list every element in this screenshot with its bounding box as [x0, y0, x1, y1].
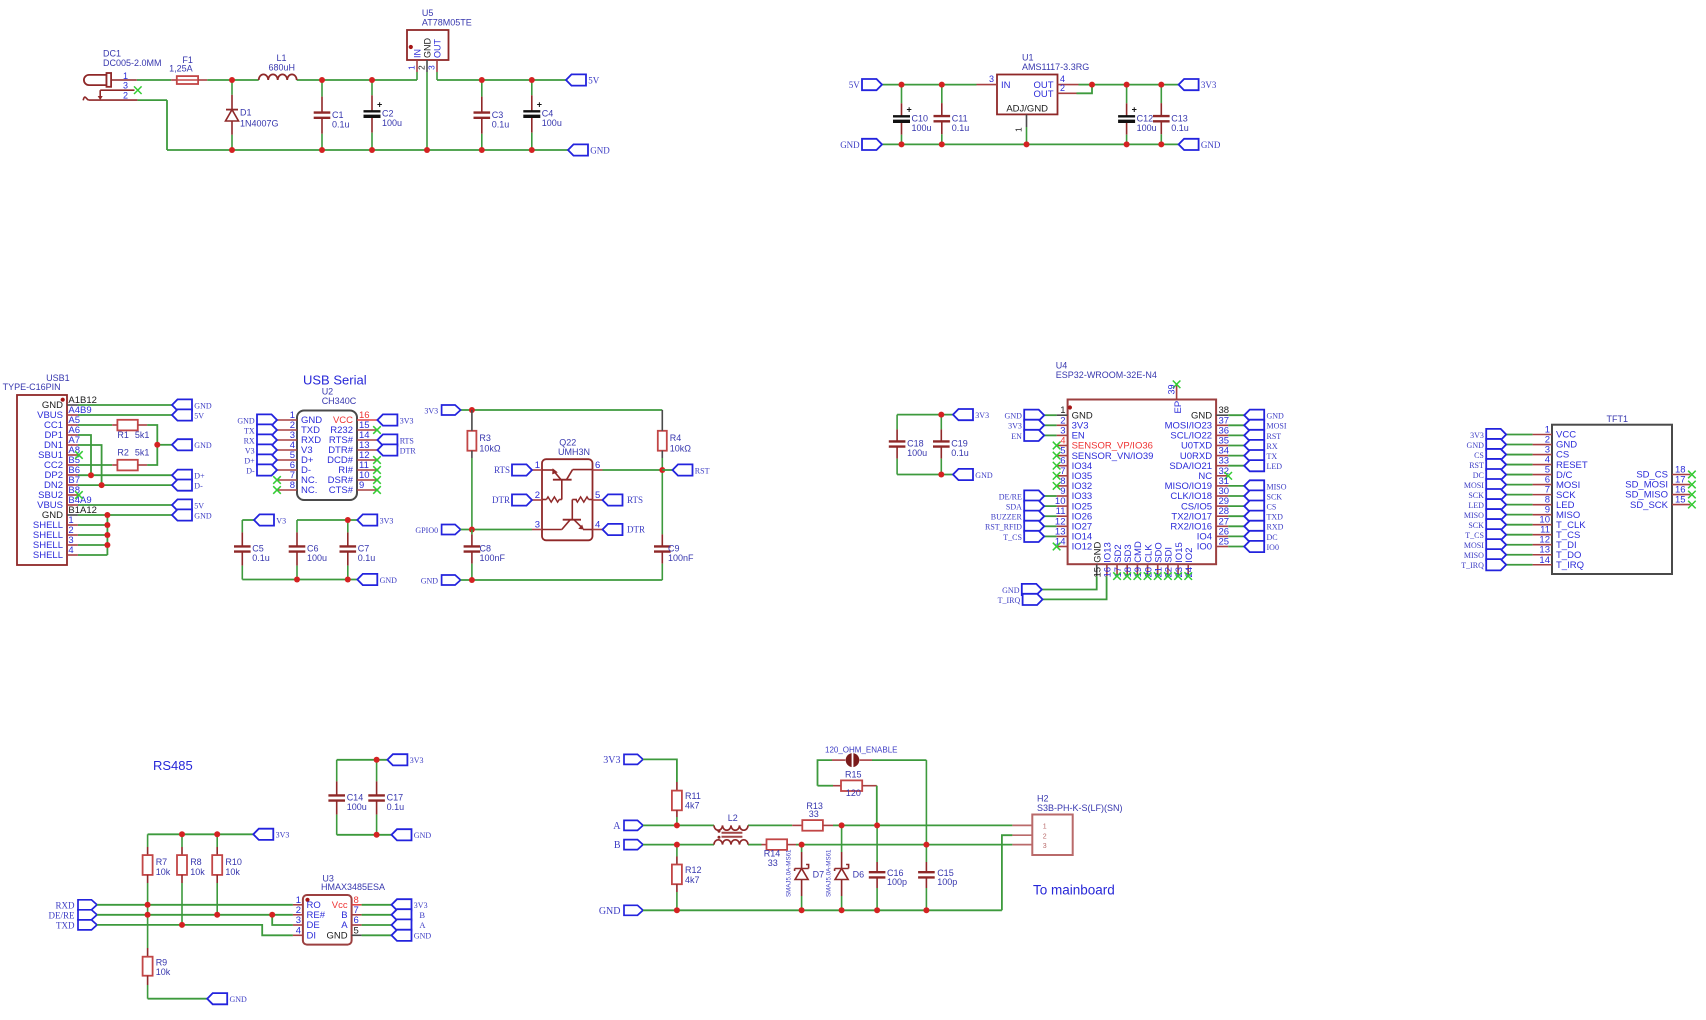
svg-text:3: 3	[426, 65, 436, 70]
svg-text:14: 14	[1539, 555, 1550, 566]
svg-text:HMAX3485ESA: HMAX3485ESA	[321, 882, 385, 892]
svg-text:TFT1: TFT1	[1607, 414, 1629, 424]
svg-text:10k: 10k	[225, 867, 240, 877]
svg-text:C12: C12	[1137, 114, 1154, 124]
svg-text:ESP32-WROOM-32E-N4: ESP32-WROOM-32E-N4	[1056, 370, 1157, 380]
svg-text:DC: DC	[1473, 471, 1484, 480]
svg-text:C3: C3	[492, 110, 504, 120]
svg-text:R14: R14	[764, 848, 781, 858]
svg-text:T_IRQ: T_IRQ	[998, 596, 1021, 605]
svg-text:2: 2	[1060, 83, 1065, 93]
svg-text:R4: R4	[670, 433, 682, 443]
svg-text:4: 4	[296, 925, 301, 936]
svg-text:DTR: DTR	[400, 446, 417, 455]
svg-text:CS: CS	[1267, 503, 1277, 512]
svg-text:2: 2	[1043, 834, 1047, 841]
svg-text:1: 1	[406, 65, 416, 70]
svg-text:10k: 10k	[156, 867, 171, 877]
svg-text:C7: C7	[358, 544, 370, 554]
svg-text:RST: RST	[1267, 432, 1282, 441]
svg-text:GND: GND	[414, 932, 432, 941]
svg-text:3V3: 3V3	[400, 416, 414, 425]
svg-text:C10: C10	[912, 114, 929, 124]
svg-text:C17: C17	[387, 793, 404, 803]
svg-text:RST: RST	[1469, 461, 1484, 470]
svg-text:CTS#: CTS#	[329, 485, 354, 496]
svg-text:EN: EN	[1011, 432, 1022, 441]
svg-text:GND: GND	[237, 416, 255, 425]
svg-text:GND: GND	[975, 471, 993, 480]
svg-text:GND: GND	[590, 145, 610, 155]
svg-text:DTR: DTR	[492, 495, 510, 505]
svg-text:3V3: 3V3	[424, 407, 438, 416]
svg-text:10k: 10k	[156, 967, 171, 977]
svg-text:TXD: TXD	[56, 921, 75, 931]
svg-text:GND: GND	[1467, 441, 1485, 450]
svg-text:TX: TX	[1267, 452, 1278, 461]
svg-text:GND: GND	[194, 401, 212, 410]
svg-text:100p: 100p	[937, 877, 957, 887]
svg-text:0.1u: 0.1u	[492, 119, 510, 129]
svg-text:SHELL: SHELL	[33, 550, 63, 561]
svg-text:BUZZER: BUZZER	[991, 513, 1023, 522]
svg-text:D+: D+	[194, 472, 205, 481]
svg-text:C9: C9	[668, 544, 680, 554]
svg-text:10k: 10k	[190, 867, 205, 877]
svg-text:3V3: 3V3	[380, 516, 394, 525]
svg-text:C14: C14	[347, 793, 364, 803]
svg-text:C6: C6	[307, 544, 319, 554]
svg-text:IO2: IO2	[1184, 547, 1195, 562]
svg-text:0.1u: 0.1u	[952, 123, 970, 133]
svg-text:1: 1	[535, 460, 540, 471]
svg-text:GND: GND	[1267, 412, 1285, 421]
svg-text:25: 25	[1219, 537, 1230, 548]
svg-text:39: 39	[1167, 384, 1177, 394]
svg-text:3V3: 3V3	[1008, 422, 1022, 431]
svg-text:R2: R2	[117, 447, 129, 457]
svg-text:0.1u: 0.1u	[1171, 123, 1189, 133]
svg-text:RST: RST	[695, 466, 710, 475]
svg-text:5V: 5V	[588, 75, 600, 85]
svg-text:GND: GND	[414, 831, 432, 840]
svg-text:D-: D-	[246, 466, 255, 475]
svg-text:100u: 100u	[307, 553, 327, 563]
svg-text:100nF: 100nF	[480, 553, 506, 563]
svg-text:GND: GND	[421, 577, 439, 586]
svg-text:MISO: MISO	[1464, 551, 1484, 560]
svg-text:D7: D7	[813, 870, 825, 880]
svg-text:V3: V3	[276, 516, 286, 525]
svg-text:GND: GND	[840, 140, 860, 150]
svg-text:0.1u: 0.1u	[951, 448, 969, 458]
svg-text:0.1u: 0.1u	[332, 119, 350, 129]
svg-text:U4: U4	[1056, 360, 1068, 370]
svg-text:3V3: 3V3	[1470, 431, 1484, 440]
svg-text:680uH: 680uH	[269, 63, 296, 73]
svg-text:MISO: MISO	[1267, 482, 1287, 491]
svg-text:5k1: 5k1	[135, 447, 150, 457]
svg-text:2: 2	[416, 65, 426, 70]
svg-text:SCK: SCK	[1468, 491, 1484, 500]
svg-text:100nF: 100nF	[668, 553, 694, 563]
svg-text:33: 33	[768, 858, 778, 868]
svg-text:To mainboard: To mainboard	[1033, 883, 1115, 898]
svg-text:D6: D6	[853, 870, 865, 880]
svg-text:C11: C11	[952, 113, 968, 123]
svg-text:TX: TX	[244, 426, 255, 435]
svg-text:24: 24	[1184, 567, 1195, 578]
svg-text:5k1: 5k1	[135, 430, 150, 440]
svg-text:5V: 5V	[194, 501, 204, 510]
svg-text:DC005-2.0MM: DC005-2.0MM	[103, 58, 162, 68]
svg-text:NC.: NC.	[301, 485, 317, 496]
svg-text:T_IRQ: T_IRQ	[1461, 561, 1484, 570]
svg-text:1N4007G: 1N4007G	[240, 118, 279, 128]
svg-text:100p: 100p	[887, 877, 907, 887]
svg-text:GND: GND	[422, 38, 432, 59]
svg-text:C1: C1	[332, 110, 344, 120]
svg-text:2: 2	[123, 90, 128, 100]
svg-text:SCK: SCK	[1468, 521, 1484, 530]
svg-text:B: B	[419, 910, 425, 920]
svg-text:V3: V3	[245, 446, 255, 455]
svg-text:S3B-PH-K-S(LF)(SN): S3B-PH-K-S(LF)(SN)	[1037, 803, 1123, 813]
svg-text:D+: D+	[244, 456, 255, 465]
svg-text:DI: DI	[307, 931, 317, 942]
svg-text:R3: R3	[479, 433, 491, 443]
svg-text:R9: R9	[156, 958, 168, 968]
svg-text:SMAJ5.0A-MS61: SMAJ5.0A-MS61	[826, 849, 833, 897]
svg-text:C8: C8	[480, 544, 492, 554]
svg-text:DTR: DTR	[627, 525, 645, 535]
svg-text:RST_RFID: RST_RFID	[985, 523, 1022, 532]
svg-text:15: 15	[1675, 495, 1686, 506]
svg-text:T_CS: T_CS	[1465, 531, 1484, 540]
svg-text:100u: 100u	[382, 118, 402, 128]
svg-text:2: 2	[535, 490, 540, 501]
svg-text:C13: C13	[1171, 113, 1188, 123]
svg-text:GND: GND	[599, 906, 621, 917]
svg-text:DC: DC	[1267, 533, 1278, 542]
svg-text:3V3: 3V3	[1201, 80, 1217, 90]
svg-text:GND: GND	[1002, 586, 1020, 595]
svg-text:D1: D1	[240, 108, 252, 118]
svg-text:EP: EP	[1173, 401, 1184, 414]
svg-text:LED: LED	[1468, 501, 1484, 510]
svg-text:GND: GND	[326, 931, 347, 942]
svg-text:R10: R10	[225, 857, 242, 867]
svg-text:4: 4	[595, 519, 600, 530]
svg-text:CS: CS	[1474, 451, 1484, 460]
svg-text:33: 33	[809, 809, 819, 819]
svg-text:100u: 100u	[1137, 123, 1157, 133]
svg-text:5V: 5V	[849, 80, 861, 90]
svg-text:3: 3	[1043, 843, 1047, 850]
svg-text:L1: L1	[277, 53, 287, 63]
svg-text:T_CS: T_CS	[1003, 533, 1022, 542]
svg-text:R1: R1	[117, 430, 129, 440]
svg-text:RTS: RTS	[494, 465, 510, 475]
svg-text:R7: R7	[156, 857, 168, 867]
svg-text:10kΩ: 10kΩ	[479, 444, 501, 454]
svg-text:OUT: OUT	[432, 39, 442, 59]
svg-text:GND: GND	[380, 576, 398, 585]
svg-text:C2: C2	[382, 109, 394, 119]
svg-text:L2: L2	[728, 813, 738, 823]
svg-text:100u: 100u	[907, 448, 927, 458]
svg-text:GND: GND	[194, 441, 212, 450]
svg-text:IN: IN	[412, 49, 422, 58]
svg-text:R8: R8	[190, 857, 202, 867]
svg-text:AT78M05TE: AT78M05TE	[422, 17, 472, 27]
svg-text:ADJ/GND: ADJ/GND	[1006, 104, 1048, 115]
svg-text:1: 1	[1014, 127, 1024, 132]
svg-text:IO0: IO0	[1267, 543, 1279, 552]
svg-text:MISO: MISO	[1464, 511, 1484, 520]
svg-text:RXD: RXD	[1267, 523, 1284, 532]
svg-text:5V: 5V	[194, 411, 204, 420]
svg-text:T_IRQ: T_IRQ	[1556, 560, 1584, 571]
svg-text:R15: R15	[845, 770, 862, 780]
svg-text:R11: R11	[685, 791, 701, 801]
svg-text:10kΩ: 10kΩ	[670, 444, 692, 454]
svg-text:100u: 100u	[347, 802, 367, 812]
svg-text:GND: GND	[230, 995, 248, 1004]
svg-text:4k7: 4k7	[685, 801, 700, 811]
svg-text:RXD: RXD	[55, 900, 75, 910]
svg-text:100u: 100u	[912, 123, 932, 133]
svg-text:USB Serial: USB Serial	[303, 372, 367, 387]
svg-text:SCK: SCK	[1267, 492, 1283, 501]
svg-text:8: 8	[290, 480, 295, 491]
svg-text:3V3: 3V3	[410, 756, 424, 765]
svg-text:RS485: RS485	[153, 758, 193, 773]
svg-text:TXD: TXD	[1267, 513, 1284, 522]
svg-text:RX: RX	[1267, 442, 1278, 451]
svg-text:0.1u: 0.1u	[387, 802, 405, 812]
svg-text:4k7: 4k7	[685, 875, 700, 885]
svg-text:GND: GND	[194, 511, 212, 520]
svg-text:A: A	[419, 920, 426, 930]
svg-text:C5: C5	[252, 544, 264, 554]
svg-text:120_OHM_ENABLE: 120_OHM_ENABLE	[825, 746, 897, 755]
svg-text:D-: D-	[194, 482, 203, 491]
svg-text:B: B	[614, 840, 621, 851]
svg-text:1,25A: 1,25A	[169, 64, 193, 74]
svg-text:IO0: IO0	[1197, 542, 1212, 553]
svg-text:120: 120	[846, 788, 861, 798]
svg-text:IO12: IO12	[1072, 542, 1093, 553]
svg-text:3: 3	[989, 74, 994, 84]
svg-text:SMAJ5.0A-MS61: SMAJ5.0A-MS61	[786, 849, 793, 897]
svg-text:DE/RE: DE/RE	[999, 492, 1022, 501]
svg-text:RTS: RTS	[627, 495, 643, 505]
svg-text:3: 3	[535, 519, 540, 530]
svg-text:C4: C4	[542, 109, 554, 119]
svg-text:RTS: RTS	[400, 436, 414, 445]
svg-text:IN: IN	[1001, 80, 1011, 91]
svg-text:9: 9	[359, 480, 364, 491]
svg-text:SD_SCK: SD_SCK	[1630, 500, 1669, 511]
svg-text:3V3: 3V3	[276, 831, 290, 840]
svg-text:MOSI: MOSI	[1464, 481, 1484, 490]
svg-text:RX: RX	[244, 436, 255, 445]
svg-text:3: 3	[123, 80, 128, 90]
svg-text:DE/RE: DE/RE	[49, 910, 76, 920]
svg-text:5: 5	[595, 490, 600, 501]
svg-text:3V3: 3V3	[603, 755, 620, 766]
svg-text:0.1u: 0.1u	[252, 553, 270, 563]
svg-text:GPIO0: GPIO0	[415, 526, 438, 535]
svg-text:MOSI: MOSI	[1464, 541, 1484, 550]
svg-text:DC1: DC1	[103, 48, 121, 58]
svg-text:AMS1117-3.3RG: AMS1117-3.3RG	[1022, 62, 1089, 72]
svg-text:OUT: OUT	[1033, 89, 1053, 100]
svg-text:6: 6	[595, 460, 600, 471]
svg-text:C18: C18	[907, 439, 924, 449]
svg-text:CH340C: CH340C	[322, 396, 357, 406]
svg-text:0.1u: 0.1u	[358, 553, 376, 563]
svg-text:TYPE-C16PIN: TYPE-C16PIN	[3, 382, 61, 392]
svg-text:100u: 100u	[542, 118, 562, 128]
svg-text:1: 1	[1043, 824, 1047, 831]
svg-text:MOSI: MOSI	[1267, 422, 1287, 431]
svg-text:R12: R12	[685, 865, 702, 875]
svg-text:5: 5	[354, 925, 359, 936]
svg-text:UMH3N: UMH3N	[558, 447, 590, 457]
svg-text:LED: LED	[1267, 462, 1283, 471]
svg-text:3V3: 3V3	[975, 411, 989, 420]
svg-text:A: A	[613, 821, 621, 832]
svg-text:GND: GND	[1005, 412, 1023, 421]
svg-text:H2: H2	[1037, 793, 1049, 803]
svg-text:C19: C19	[951, 439, 968, 449]
svg-text:SDA: SDA	[1006, 503, 1022, 512]
svg-text:GND: GND	[1201, 140, 1221, 150]
